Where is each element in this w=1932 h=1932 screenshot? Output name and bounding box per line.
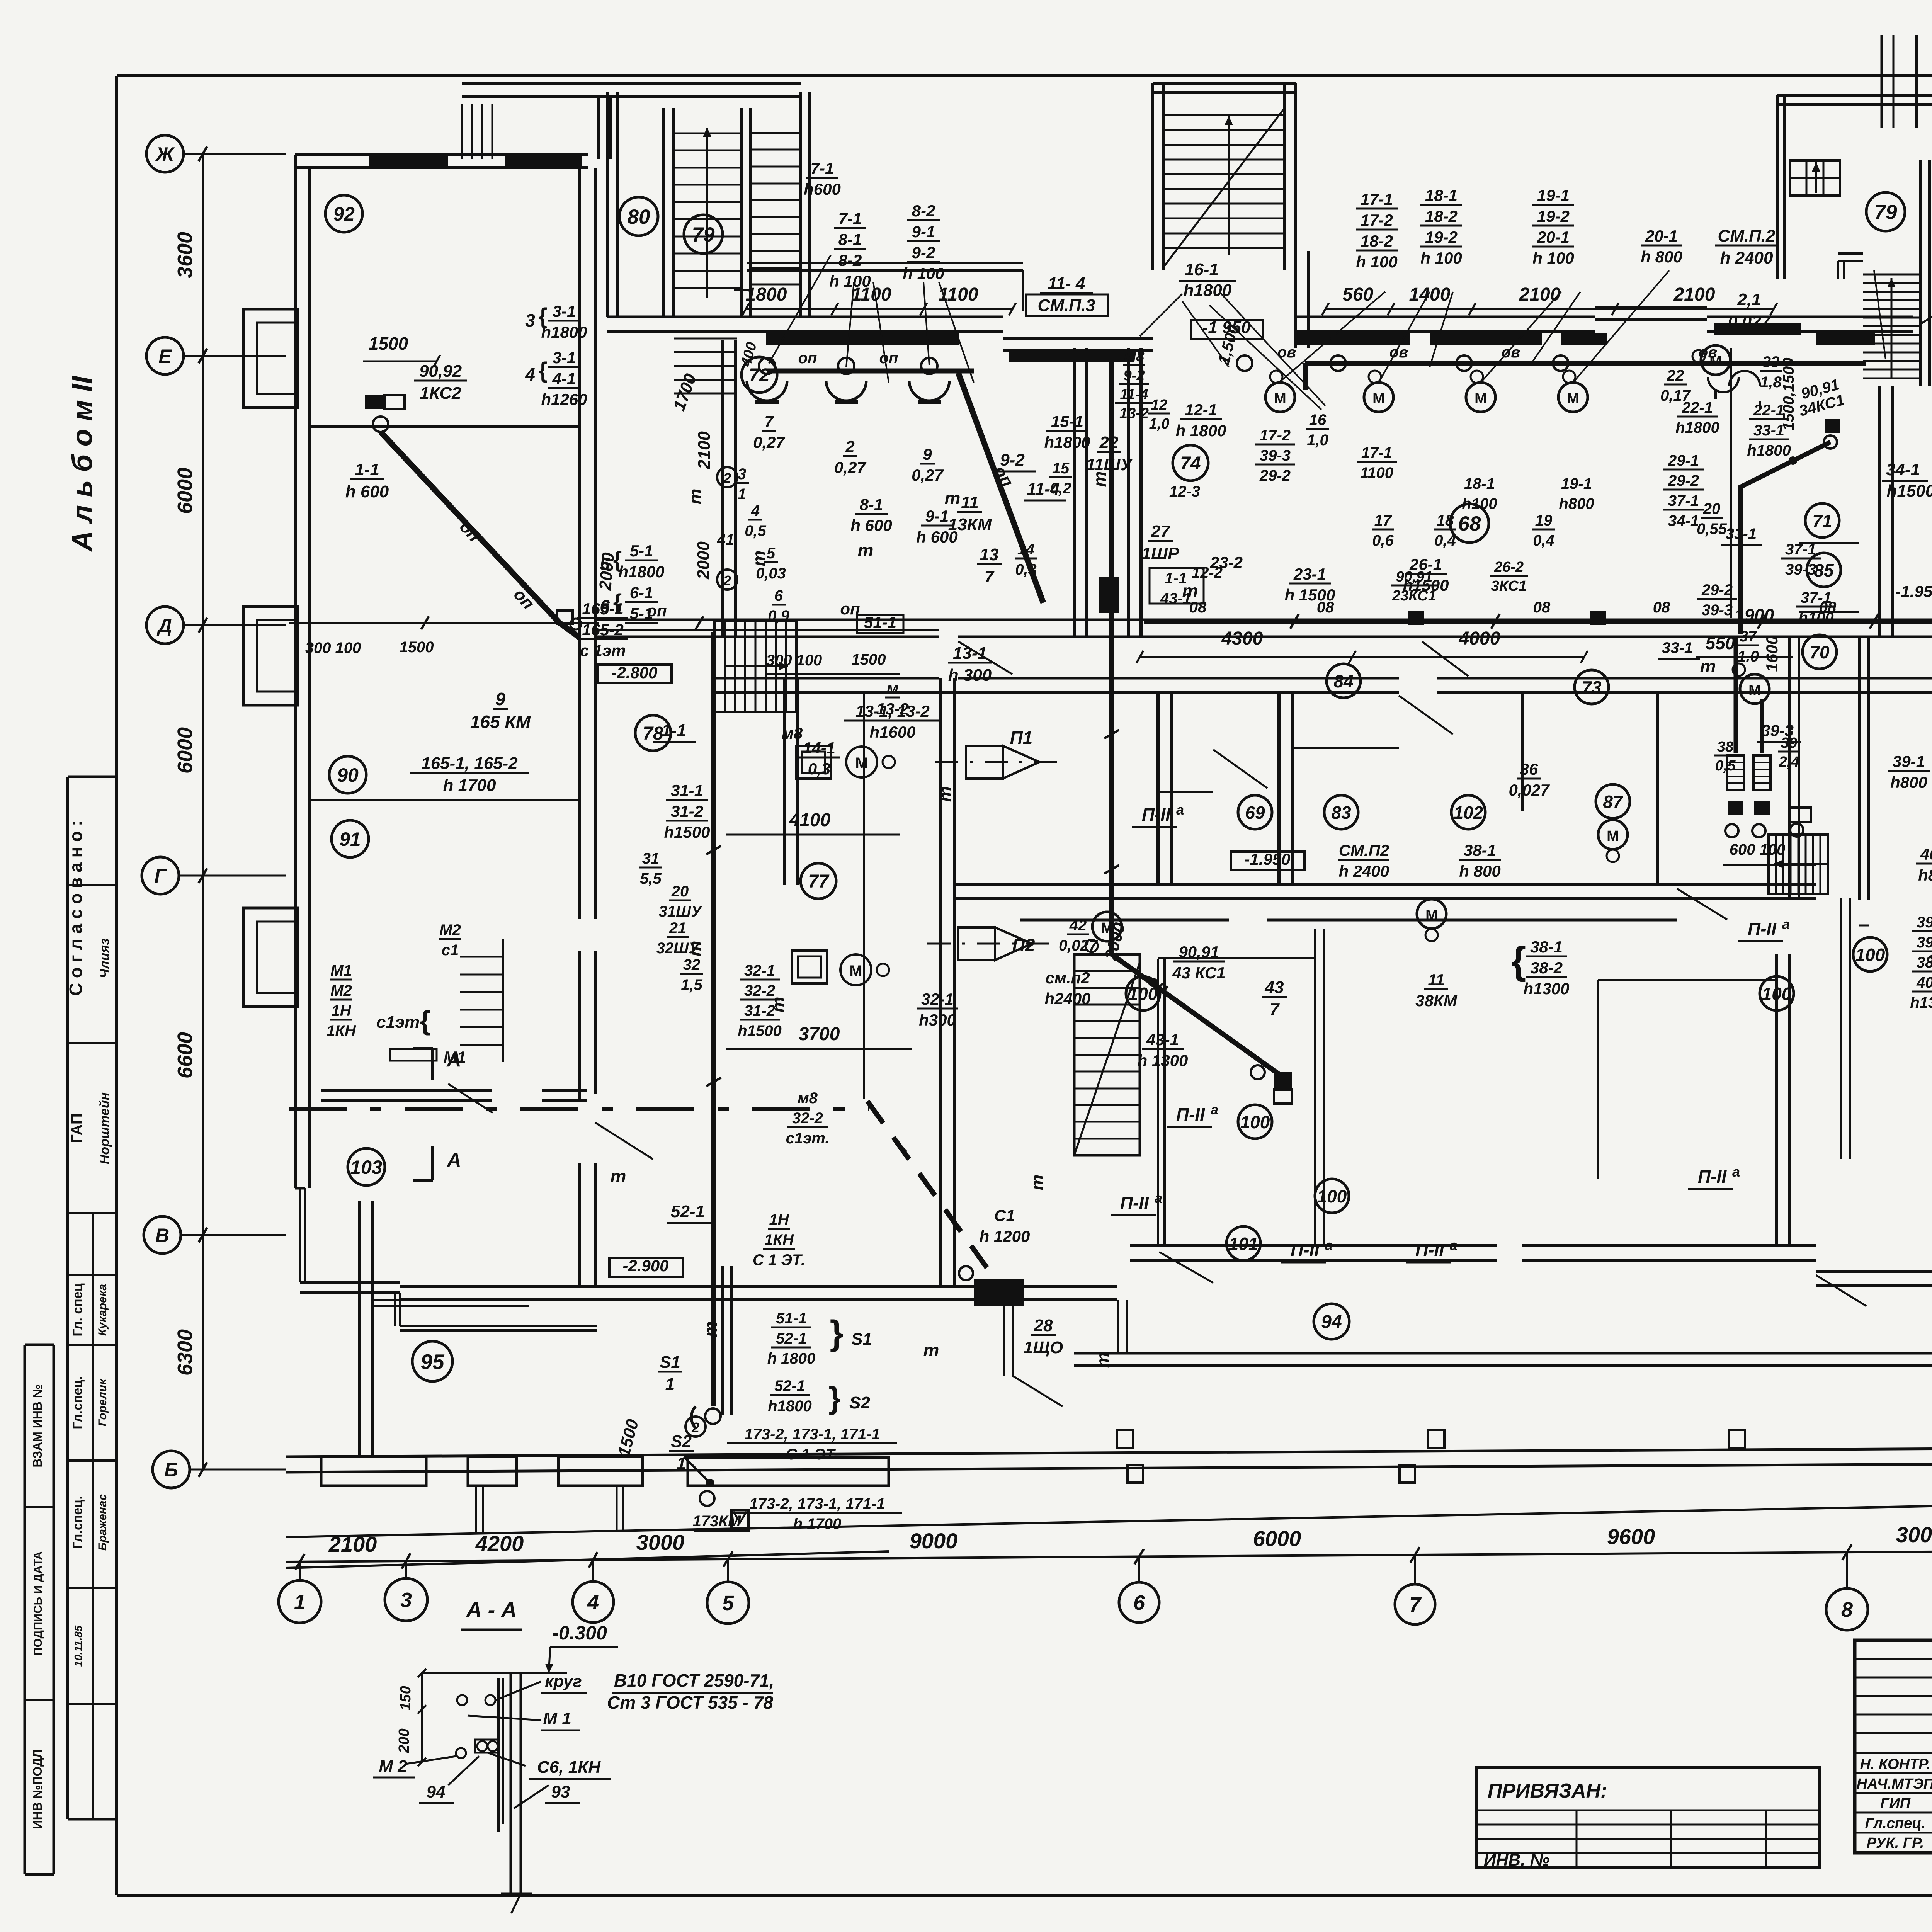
- svg-text:а: а: [1211, 1102, 1218, 1117]
- wall spur to south wall: [358, 1201, 361, 1457]
- wall: y2537 partition: [1598, 979, 1777, 981]
- svg-text:72: 72: [749, 365, 770, 386]
- svg-text:А - А: А - А: [466, 1597, 517, 1622]
- svg-text:Е: Е: [158, 345, 172, 367]
- svg-text:1ШР: 1ШР: [1142, 544, 1180, 563]
- room 83: [1324, 795, 1358, 829]
- wall: left wing east (corridor side): [578, 168, 581, 919]
- inner dimension rows: [746, 308, 1012, 310]
- left wing NE corner step: [734, 289, 751, 291]
- svg-text:h 1700: h 1700: [443, 776, 497, 795]
- wall: left wing north (top): [295, 153, 588, 156]
- duct symbols left: [390, 1049, 437, 1061]
- svg-text:22-1: 22-1: [1753, 402, 1784, 419]
- svg-text:33-1: 33-1: [1662, 639, 1693, 656]
- svg-text:а: а: [1325, 1237, 1333, 1253]
- window sill 4040: [1561, 333, 1607, 345]
- svg-text:2100: 2100: [695, 431, 714, 469]
- entrance canopy top-left: [462, 82, 801, 85]
- svg-text:2,1: 2,1: [1737, 290, 1761, 309]
- wire: heavy diagonal down from row: [958, 373, 1043, 603]
- svg-text:9-1: 9-1: [912, 223, 935, 241]
- svg-text:11: 11: [961, 493, 979, 512]
- wall: room 74 west: [1127, 348, 1130, 637]
- svg-text:93: 93: [551, 1782, 570, 1801]
- room 91: [332, 820, 369, 857]
- svg-text:3700: 3700: [799, 1024, 840, 1044]
- svg-text:h 800: h 800: [1641, 248, 1682, 266]
- svg-text:13-2: 13-2: [1119, 405, 1149, 422]
- svg-text:М: М: [1274, 391, 1286, 407]
- lamp outlet 2190: [838, 358, 854, 374]
- svg-text:М: М: [1709, 354, 1722, 370]
- svg-text:1600: 1600: [1763, 636, 1781, 672]
- svg-text:31ШУ: 31ШУ: [659, 903, 703, 920]
- svg-text:h1800: h1800: [618, 563, 664, 581]
- svg-text:С о г л а с о в а н о :: С о г л а с о в а н о :: [66, 820, 86, 996]
- room 70: [1803, 635, 1837, 669]
- svg-text:23-1: 23-1: [1293, 565, 1326, 583]
- window sill 1983: [766, 333, 959, 345]
- axis В: [181, 1234, 286, 1236]
- svg-text:3КС1: 3КС1: [1491, 578, 1527, 594]
- svg-text:13-2: 13-2: [876, 700, 909, 718]
- wall: partition x4864: [1878, 386, 1881, 637]
- outlet 1KC2 black box: [365, 395, 383, 409]
- svg-text:S1: S1: [660, 1353, 680, 1372]
- svg-text:165-2: 165-2: [582, 621, 623, 639]
- room 92: [325, 195, 362, 232]
- axis Г: [179, 875, 286, 877]
- sheet border frame: [117, 74, 1932, 77]
- svg-text:11-4: 11-4: [1120, 386, 1148, 403]
- motor M 3832: [1466, 383, 1495, 412]
- svg-text:1900: 1900: [1735, 605, 1774, 625]
- svg-text:т: т: [701, 1321, 721, 1337]
- svg-text:39-3: 39-3: [1260, 447, 1291, 464]
- svg-text:17-2: 17-2: [1260, 427, 1291, 444]
- svg-text:6: 6: [1133, 1591, 1145, 1614]
- svg-text:4300: 4300: [1221, 628, 1263, 649]
- svg-text:37-1: 37-1: [1801, 589, 1832, 606]
- svg-text:П-II: П-II: [1415, 1240, 1444, 1260]
- svg-text:40-1: 40-1: [1916, 974, 1932, 991]
- svg-text:102: 102: [1454, 803, 1483, 823]
- svg-text:11- 4: 11- 4: [1048, 274, 1085, 293]
- title block left grid: [1855, 1658, 1932, 1660]
- svg-text:3600: 3600: [173, 232, 197, 278]
- svg-text:165-1: 165-1: [582, 600, 623, 618]
- svg-text:М: М: [1567, 391, 1579, 407]
- svg-text:600 100: 600 100: [1730, 841, 1786, 858]
- svg-text:М1: М1: [330, 962, 352, 979]
- motor M right 37-1: [1740, 674, 1769, 704]
- title block: [1855, 1640, 1932, 1853]
- svg-text:12-1: 12-1: [1185, 401, 1217, 419]
- room 100: [1315, 1179, 1349, 1213]
- motor M room 87: [1598, 820, 1628, 849]
- wall: rooms 92/90 divider: [309, 425, 580, 428]
- svg-text:1ЩО: 1ЩО: [1024, 1338, 1063, 1357]
- wire: S riser bottom: [711, 632, 716, 1406]
- svg-text:8-1: 8-1: [860, 495, 883, 514]
- door swings: [595, 1122, 653, 1159]
- svg-text:а: а: [1782, 916, 1790, 932]
- fan П1: [966, 746, 1003, 779]
- porch piers: [321, 1457, 426, 1486]
- svg-text:9-2: 9-2: [912, 243, 935, 262]
- svg-text:33-1: 33-1: [1753, 422, 1784, 439]
- wire heavy drops to heaters: [1734, 637, 1738, 753]
- svg-text:С1: С1: [994, 1206, 1015, 1225]
- svg-text:19: 19: [1535, 512, 1553, 529]
- svg-text:М: М: [1748, 682, 1761, 699]
- svg-text:1КС2: 1КС2: [420, 384, 461, 403]
- svg-text:32ШУ: 32ШУ: [656, 940, 701, 957]
- svg-text:h1300: h1300: [1910, 994, 1932, 1011]
- svg-text:22: 22: [1099, 433, 1119, 452]
- north facade wall with windows: [607, 316, 1003, 318]
- svg-text:П-II: П-II: [1142, 804, 1171, 825]
- svg-text:h 600: h 600: [345, 482, 389, 501]
- svg-text:43: 43: [1265, 978, 1284, 997]
- left stamp column: approval table: [66, 777, 69, 1819]
- axis Д: [184, 624, 286, 626]
- svg-text:{: {: [539, 304, 548, 329]
- svg-text:h2400: h2400: [1044, 990, 1090, 1008]
- svg-text:94: 94: [1321, 1312, 1342, 1332]
- svg-text:т: т: [935, 786, 955, 802]
- svg-text:16-1: 16-1: [1185, 260, 1219, 279]
- svg-text:4: 4: [751, 502, 760, 519]
- svg-text:h 1800: h 1800: [767, 1350, 816, 1367]
- wall: x2997 lower band: [1157, 959, 1159, 1245]
- svg-text:Кукарека: Кукарека: [96, 1284, 109, 1336]
- svg-text:77: 77: [808, 871, 830, 892]
- svg-text:а: а: [1732, 1164, 1740, 1180]
- svg-text:7: 7: [764, 412, 774, 430]
- svg-text:СМ.П.3: СМ.П.3: [1038, 296, 1095, 315]
- room 69: [1238, 795, 1272, 829]
- svg-text:51-1: 51-1: [776, 1310, 807, 1327]
- wall: room 74/68 divider: [1294, 251, 1297, 348]
- svg-text:5: 5: [722, 1592, 734, 1615]
- axis 1: [299, 1562, 301, 1580]
- svg-text:П-II: П-II: [1291, 1240, 1320, 1260]
- svg-text:33: 33: [1762, 354, 1780, 371]
- svg-text:h 1700: h 1700: [793, 1515, 842, 1532]
- svg-text:т: т: [749, 551, 769, 566]
- svg-text:91: 91: [339, 828, 361, 850]
- window sill 3700: [1430, 333, 1542, 345]
- svg-text:{: {: [1511, 939, 1526, 982]
- svg-text:80: 80: [628, 206, 650, 228]
- room 77: [801, 863, 836, 899]
- svg-text:h600: h600: [804, 180, 841, 198]
- svg-text:ПОДПИСЬ И ДАТА: ПОДПИСЬ И ДАТА: [32, 1551, 44, 1656]
- svg-text:100: 100: [1317, 1186, 1347, 1206]
- svg-text:5: 5: [600, 554, 610, 574]
- svg-text:43 КС1: 43 КС1: [1172, 964, 1225, 982]
- svg-text:08: 08: [1533, 599, 1551, 616]
- svg-text:1: 1: [738, 486, 746, 503]
- svg-text:52-1: 52-1: [774, 1378, 805, 1395]
- svg-text:10.11.85: 10.11.85: [72, 1625, 84, 1667]
- svg-text:2: 2: [723, 470, 731, 486]
- svg-text:7: 7: [1270, 1000, 1280, 1019]
- svg-text:1-1: 1-1: [662, 721, 686, 740]
- svg-text:7-1: 7-1: [838, 209, 862, 228]
- svg-text:h1800: h1800: [1747, 442, 1791, 459]
- svg-text:94: 94: [427, 1782, 446, 1801]
- svg-text:32-1: 32-1: [921, 990, 954, 1008]
- svg-text:т: т: [1027, 1175, 1047, 1190]
- svg-text:Гл.спец.: Гл.спец.: [70, 1376, 85, 1429]
- svg-text:90: 90: [337, 764, 359, 786]
- svg-text:32-2: 32-2: [744, 982, 775, 999]
- svg-text:1400: 1400: [1409, 284, 1451, 305]
- junction box at corridor: [557, 611, 573, 624]
- svg-text:h 1200: h 1200: [980, 1227, 1030, 1245]
- svg-text:h1500: h1500: [1887, 481, 1932, 500]
- svg-text:2100: 2100: [1673, 284, 1715, 305]
- wire: cable 1-1 across room 92: [289, 622, 599, 624]
- svg-text:М2: М2: [439, 922, 461, 939]
- bay window west 2: [243, 607, 298, 705]
- lamp outlet 1985: [759, 358, 775, 374]
- svg-text:19-1: 19-1: [1561, 475, 1592, 492]
- svg-text:38-2: 38-2: [1530, 959, 1563, 977]
- svg-text:Г: Г: [155, 865, 167, 887]
- left tower lower flight: [674, 338, 737, 340]
- svg-text:19-2: 19-2: [1537, 207, 1570, 225]
- svg-text:h1600: h1600: [869, 723, 915, 741]
- svg-text:18-1: 18-1: [1425, 186, 1458, 204]
- svg-text:17-1: 17-1: [1361, 190, 1393, 208]
- detail: embed plate and channel: [421, 1672, 567, 1674]
- motor M room 42: [1092, 912, 1122, 941]
- svg-text:9600: 9600: [1607, 1524, 1655, 1549]
- svg-text:70: 70: [1810, 642, 1830, 662]
- wall: x4598 lower: [1775, 954, 1778, 1247]
- svg-text:П-II: П-II: [1698, 1167, 1727, 1187]
- svg-text:11ШУ: 11ШУ: [1086, 455, 1133, 474]
- column rooms 70/85/71: [1858, 637, 1861, 900]
- wall: partition x4480: [1730, 348, 1732, 618]
- svg-text:9000: 9000: [910, 1529, 958, 1553]
- svg-text:38КМ: 38КМ: [1415, 992, 1458, 1010]
- box 173KM: [731, 1510, 748, 1529]
- svg-text:а: а: [1176, 802, 1184, 818]
- svg-text:8: 8: [1841, 1598, 1853, 1621]
- svg-text:31-1: 31-1: [671, 781, 703, 799]
- svg-text:Гл.спец.: Гл.спец.: [70, 1496, 85, 1549]
- axis 6: [1138, 1556, 1140, 1582]
- svg-text:S1: S1: [851, 1330, 872, 1349]
- wire: heavy dashed to 1SCHO: [867, 1101, 995, 1279]
- svg-text:550: 550: [1706, 633, 1735, 653]
- stair lower right: [1769, 835, 1828, 894]
- svg-text:2: 2: [845, 437, 854, 456]
- svg-text:h 300: h 300: [948, 666, 992, 685]
- room 73: [1575, 670, 1609, 704]
- svg-text:6300: 6300: [173, 1329, 197, 1376]
- svg-text:h1500: h1500: [1403, 576, 1449, 594]
- svg-text:6000: 6000: [173, 468, 197, 514]
- wall: x2997: [1156, 692, 1160, 885]
- svg-text:2: 2: [723, 573, 731, 588]
- room 95: [412, 1341, 452, 1381]
- middle band small partitions: [1293, 747, 1399, 749]
- svg-text:13КМ: 13КМ: [948, 515, 992, 534]
- svg-text:ИНВ. №: ИНВ. №: [1484, 1850, 1549, 1869]
- wall: x4135 partition: [1597, 980, 1599, 1179]
- central stair tower: [1151, 83, 1154, 270]
- svg-text:0,2: 0,2: [1050, 480, 1071, 497]
- svg-text:ГАП: ГАП: [68, 1113, 85, 1143]
- svg-text:М: М: [849, 963, 862, 980]
- corridor 2 walls: [954, 883, 1816, 886]
- svg-text:0,03: 0,03: [756, 565, 786, 582]
- room 87: [1596, 784, 1630, 818]
- svg-text:Норштейн: Норштейн: [97, 1092, 112, 1164]
- svg-text:103: 103: [350, 1156, 383, 1178]
- svg-text:43-1: 43-1: [1146, 1031, 1179, 1049]
- svg-text:т: т: [685, 489, 705, 505]
- bay window west 3: [243, 908, 298, 1007]
- svg-text:0,5: 0,5: [1715, 758, 1736, 774]
- svg-text:26-1: 26-1: [1409, 555, 1442, 573]
- svg-text:3: 3: [525, 310, 535, 330]
- svg-text:12-3: 12-3: [1169, 483, 1200, 500]
- wall: rooms 91/103 divider: [321, 1089, 492, 1092]
- svg-text:М 1: М 1: [543, 1709, 571, 1728]
- svg-text:h1800: h1800: [1184, 281, 1232, 300]
- room 90: [329, 756, 366, 793]
- svg-text:83: 83: [1331, 803, 1351, 823]
- corridor walls upper: [595, 619, 1932, 621]
- svg-text:0,027: 0,027: [1059, 937, 1098, 954]
- svg-text:38-2: 38-2: [1917, 954, 1932, 971]
- svg-text:71: 71: [1812, 511, 1832, 531]
- svg-text:1,5: 1,5: [681, 976, 702, 993]
- stair tower shaft top: [1881, 35, 1883, 128]
- wall: thin partition x2236: [863, 692, 865, 1099]
- wall: stair column west x2434: [939, 678, 942, 1287]
- wall: x3310: [1277, 692, 1281, 885]
- svg-text:h1800: h1800: [541, 323, 587, 341]
- svg-text:87: 87: [1603, 792, 1624, 812]
- svg-text:М: М: [1372, 391, 1385, 407]
- svg-text:3000: 3000: [1896, 1522, 1932, 1547]
- heaters 38/39: [1727, 755, 1744, 790]
- svg-text:1: 1: [665, 1375, 675, 1394]
- svg-text:С6, 1КН: С6, 1КН: [537, 1758, 601, 1777]
- svg-text:h850: h850: [1918, 866, 1932, 884]
- svg-text:с1: с1: [442, 942, 459, 959]
- motor M near 38-1: [1417, 899, 1446, 929]
- outlet 43KC1 black box: [1274, 1072, 1292, 1088]
- svg-text:1: 1: [294, 1590, 306, 1614]
- svg-text:т: т: [945, 488, 961, 508]
- svg-text:-1.950: -1.950: [1244, 850, 1290, 868]
- svg-text:18-1: 18-1: [1464, 475, 1495, 492]
- svg-text:а: а: [1155, 1190, 1162, 1206]
- svg-text:0,027: 0,027: [1509, 781, 1550, 799]
- svg-text:}: }: [830, 1314, 843, 1352]
- svg-text:52-1: 52-1: [671, 1202, 705, 1221]
- room 100: [1238, 1105, 1272, 1139]
- wall: y2480 partition: [1158, 957, 1315, 959]
- svg-text:Н. КОНТР.: Н. КОНТР.: [1860, 1756, 1931, 1772]
- svg-text:9: 9: [495, 689, 505, 709]
- svg-text:П2: П2: [1012, 935, 1035, 955]
- room 80: [619, 197, 658, 236]
- axis Ж: [184, 153, 286, 155]
- svg-text:ГИП: ГИП: [1880, 1796, 1911, 1812]
- lower right partitions: [1840, 898, 1842, 1159]
- svg-text:h1300: h1300: [1523, 980, 1569, 998]
- left axis dimension line: [202, 154, 204, 1469]
- room 102: [1451, 795, 1485, 829]
- left stamp column: inventory strip: [24, 1345, 26, 1874]
- wall: x3940 partition: [1521, 692, 1524, 811]
- svg-text:ов: ов: [1277, 344, 1296, 361]
- svg-text:17-2: 17-2: [1361, 211, 1393, 229]
- svg-text:200: 200: [396, 1728, 412, 1753]
- svg-text:С 1 ЭТ.: С 1 ЭТ.: [753, 1252, 805, 1269]
- svg-text:М: М: [1475, 391, 1487, 407]
- entrance steps: [461, 104, 463, 159]
- svg-text:h 100: h 100: [903, 264, 944, 282]
- svg-text:4000: 4000: [1459, 628, 1500, 649]
- fan П2: [958, 927, 995, 960]
- room 85: [1807, 553, 1841, 587]
- svg-text:А л ь б о м II: А л ь б о м II: [66, 376, 98, 552]
- svg-text:17-1: 17-1: [1361, 444, 1392, 461]
- svg-text:84: 84: [1333, 671, 1353, 691]
- wire: room 72 lighting row: [767, 369, 974, 374]
- room 71: [1805, 503, 1839, 537]
- svg-text:300 100: 300 100: [305, 639, 361, 656]
- svg-text:S2: S2: [849, 1393, 870, 1412]
- wall: room 95 top: [372, 1299, 529, 1301]
- svg-text:см.п2: см.п2: [1045, 969, 1090, 987]
- wall: room 72 east: [1073, 348, 1076, 637]
- svg-text:9: 9: [923, 445, 932, 463]
- svg-text:08: 08: [1653, 599, 1670, 616]
- svg-text:31-2: 31-2: [744, 1002, 775, 1019]
- svg-text:h 1300: h 1300: [1138, 1051, 1188, 1070]
- svg-text:м8: м8: [782, 724, 803, 742]
- svg-text:ВЗАМ ИНВ №: ВЗАМ ИНВ №: [31, 1384, 44, 1467]
- svg-text:М: М: [1607, 828, 1619, 844]
- outlet row bottom axis 5 wall: [684, 1456, 714, 1458]
- wall: x3404 partition lower: [1314, 929, 1316, 1247]
- svg-text:h1260: h1260: [541, 390, 587, 408]
- wall: hall west x2893: [1117, 1300, 1119, 1353]
- svg-text:1100: 1100: [938, 284, 978, 305]
- svg-text:1-1: 1-1: [1165, 570, 1187, 587]
- stair tower rooms 80/79: [606, 92, 609, 317]
- svg-text:17: 17: [1374, 512, 1392, 529]
- svg-text:3-1: 3-1: [553, 302, 576, 320]
- svg-text:П1: П1: [1010, 728, 1033, 748]
- svg-text:h 800: h 800: [1459, 862, 1500, 880]
- svg-text:м8: м8: [798, 1090, 818, 1107]
- svg-text:20: 20: [671, 883, 689, 900]
- svg-text:73: 73: [1582, 677, 1602, 697]
